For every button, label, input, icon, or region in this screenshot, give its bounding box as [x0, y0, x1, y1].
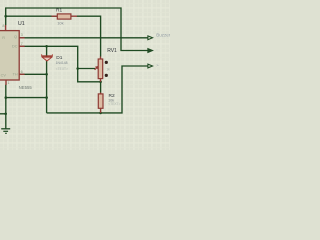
wire stub from off-screen left to ground vertical [0, 113, 6, 115]
svg-text:<TEXT>: <TEXT> [56, 67, 68, 71]
wire ground vertical from 555 pin 1 to ground symbol [5, 85, 7, 129]
wire DC pin 7 right, down at x77.7, right to RV1 bottom [19, 46, 100, 82]
potentiometer RV1 pin stubs [100, 57, 102, 82]
RV1 increment button [105, 61, 108, 64]
wire RV1 bottom to R2 top [100, 82, 102, 93]
wire R1 right lead to RV1 top [77, 16, 101, 56]
terminal arrow 3 (ground net) [148, 64, 153, 68]
svg-text:DC: DC [12, 45, 18, 49]
svg-text:RV1: RV1 [107, 48, 117, 54]
svg-text:R1: R1 [56, 7, 62, 13]
U1 pin stub Q pin 3 [19, 37, 24, 39]
junction DC wire / D1 branch [45, 45, 48, 48]
RV1 wiper arrow [95, 68, 97, 70]
U1 pin stub TH pin 6 [19, 73, 24, 75]
diode D1 triangle [42, 57, 52, 61]
wire RV1 wiper to DC vertical [78, 68, 95, 70]
wire 555 output Q pin 3 to terminal 1 [19, 37, 148, 39]
wire VCC rail to R1 left lead [6, 15, 58, 17]
svg-text:TH: TH [13, 72, 18, 76]
timer IC U1 NE555 body (left part cropped off-screen) [0, 31, 19, 80]
wire bottom rail to R2 bottom, up at x122 to terminal 3 [47, 66, 148, 113]
ground [1, 129, 10, 134]
svg-text:7: 7 [21, 42, 23, 46]
svg-text:CV: CV [1, 73, 7, 77]
svg-text:8: 8 [2, 24, 4, 28]
junction ground wire / D1 vertical [45, 96, 48, 99]
U1 pin stub GND pin 1 [5, 80, 7, 85]
svg-text:1: 1 [7, 81, 9, 85]
svg-text:6: 6 [21, 70, 23, 74]
svg-text:<TEXT>: <TEXT> [108, 102, 120, 106]
wire ground vertical to D1 vertical [6, 97, 47, 99]
U1 pin stub VCC pin 8 [5, 25, 7, 31]
junction ground vertical / ground wire [5, 96, 8, 99]
terminal arrow 1 (output net) [148, 36, 153, 40]
wire D1 branch vertical from node at y46.3 down to bottom rail [46, 46, 48, 113]
junction wiper wire / DC vertical [76, 67, 79, 70]
svg-text:Buzzer: Buzzer [156, 33, 170, 38]
junction TH wire / D1 vertical [45, 73, 48, 76]
resistor R1 leads [52, 15, 78, 17]
svg-text:3: 3 [21, 33, 23, 37]
terminal arrow 2 (VCC net) [148, 49, 153, 53]
wire VCC top rail from pin 8 up, across, down at x121 to terminal 2 [6, 8, 148, 51]
resistor R1 body [57, 14, 71, 19]
potentiometer RV1 body [98, 59, 103, 79]
svg-text:1k: 1k [106, 67, 110, 71]
junction VCC rail / R1 lead [4, 15, 7, 18]
diode D1 cathode bar [41, 55, 52, 57]
junction ground vertical / left stub [4, 113, 7, 116]
svg-text:Q: Q [14, 35, 17, 39]
svg-text:1N4148: 1N4148 [56, 61, 68, 65]
RV1 decrement button [105, 74, 108, 77]
svg-text:,: , [156, 46, 157, 51]
junction R2 bottom / bottom rail [99, 112, 102, 115]
svg-text:R: R [2, 36, 5, 40]
U1 pin stub DC pin 7 [19, 45, 24, 47]
svg-text:NE555: NE555 [19, 85, 33, 90]
svg-text:10k: 10k [57, 21, 63, 26]
resistor R2 body [98, 94, 103, 108]
wire TH pin 6 to D1 vertical [19, 73, 46, 75]
resistor R2 leads [100, 93, 102, 113]
svg-text:U1: U1 [18, 21, 25, 27]
junction RV1 bottom node [99, 81, 102, 84]
